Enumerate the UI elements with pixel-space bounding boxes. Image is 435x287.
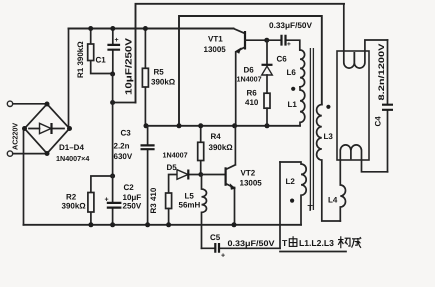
diode D6 — [237, 40, 273, 93]
node VT2 emitter bottom — [232, 222, 237, 227]
wire bridge left vertex to bottom rail — [23, 129, 25, 225]
node R3 bottom — [166, 222, 171, 227]
svg-text:L1: L1 — [288, 100, 298, 109]
wire base node to VT2 — [201, 174, 226, 176]
node bridge right — [67, 126, 72, 131]
node bridge bottom — [45, 151, 50, 156]
inductor L3 — [317, 105, 341, 222]
transistor VT1 — [204, 29, 267, 126]
phase dot L6/L1 — [291, 87, 295, 91]
resistor R2 — [62, 176, 113, 225]
wire top border (C1/C2 midpoint to lamp) — [136, 4, 345, 103]
inductor L2 — [280, 162, 306, 225]
phase dot L2 — [290, 199, 294, 203]
svg-text:R5: R5 — [154, 68, 165, 77]
svg-text:AC220V: AC220V — [11, 123, 20, 150]
svg-text:0.33μF/50V: 0.33μF/50V — [269, 21, 313, 30]
wire bottom rail — [24, 224, 302, 226]
hanzi gou — [338, 236, 350, 248]
svg-text:390kΩ: 390kΩ — [62, 202, 87, 211]
svg-text:L2: L2 — [286, 177, 296, 186]
svg-text:R3 410: R3 410 — [149, 187, 158, 213]
node C1 bottom / R1 join — [110, 72, 115, 77]
node C3 bottom — [145, 222, 150, 227]
capacitor C4 — [374, 40, 394, 172]
svg-text:C2: C2 — [124, 183, 135, 192]
node VT1 base — [264, 38, 269, 43]
wire bridge right vertex to DC+ rail — [68, 29, 70, 129]
fluorescent lamp tube — [337, 4, 388, 172]
svg-text:2.2n: 2.2n — [114, 142, 130, 151]
phase dot L3 — [326, 105, 330, 109]
resistor R5 — [142, 29, 175, 126]
transformer core — [310, 48, 313, 210]
svg-text:VT1: VT1 — [208, 35, 223, 44]
node D6R6 mid rail — [265, 123, 270, 128]
svg-text:1N4007: 1N4007 — [163, 151, 188, 160]
node C2 bottom — [110, 222, 115, 227]
resistor R3 — [149, 187, 172, 225]
svg-text:T: T — [308, 203, 314, 213]
svg-text:R1 390kΩ: R1 390kΩ — [76, 41, 85, 78]
inductor L5 — [179, 175, 207, 249]
svg-text:T: T — [282, 238, 288, 248]
node VT1 emitter / mid rail / VT2 collector — [232, 123, 237, 128]
svg-text:+: + — [221, 253, 225, 260]
hanzi you — [289, 236, 297, 246]
svg-text:L3: L3 — [324, 132, 334, 141]
svg-text:56mH: 56mH — [179, 201, 201, 210]
diode inside bridge — [29, 123, 64, 134]
node R2 top join — [110, 174, 115, 179]
wire sub-top rail to L3 — [179, 16, 322, 126]
svg-text:+: + — [115, 37, 119, 44]
transistor VT2 — [226, 126, 263, 225]
node R1 top — [88, 26, 93, 31]
resistor R1 — [76, 29, 113, 79]
svg-text:C3: C3 — [121, 129, 132, 138]
inductor L6 — [300, 50, 305, 87]
svg-text:250V: 250V — [123, 202, 142, 211]
capacitor C3 — [114, 126, 155, 225]
svg-text:C5: C5 — [210, 233, 221, 242]
capacitor C1 — [96, 29, 134, 96]
node bridge top — [45, 102, 50, 107]
node C1 top — [110, 26, 115, 31]
svg-text:410: 410 — [245, 98, 259, 107]
svg-text:R4: R4 — [211, 132, 222, 141]
svg-text:630V: 630V — [114, 152, 133, 161]
node R5 top — [143, 26, 148, 31]
svg-text:+: + — [287, 41, 291, 48]
svg-text:C1: C1 — [96, 56, 107, 65]
resistor R6 — [245, 89, 270, 126]
wire C1C2 column — [112, 74, 114, 176]
svg-text:R6: R6 — [247, 89, 258, 98]
svg-text:C6: C6 — [277, 55, 288, 64]
diode D5 — [163, 151, 201, 194]
svg-text:13005: 13005 — [204, 45, 227, 54]
svg-text:D1–D4: D1–D4 — [59, 143, 84, 152]
wire DC+ top rail — [69, 28, 234, 30]
svg-text:390kΩ: 390kΩ — [151, 78, 176, 87]
svg-text:13005: 13005 — [240, 179, 263, 188]
inductor L4 — [328, 160, 345, 221]
wire riser to midpoint node — [113, 102, 136, 104]
svg-text:0.33μF/50V: 0.33μF/50V — [228, 239, 276, 248]
svg-text:C4: C4 — [374, 116, 383, 127]
lamp bottom filament — [340, 145, 387, 172]
node bridge left — [22, 126, 27, 131]
svg-text:L4: L4 — [328, 196, 338, 205]
node base VT2 / D5 cathode — [198, 172, 203, 177]
terminal AC input lower — [7, 151, 12, 156]
hanzi cheng — [352, 237, 362, 248]
inductor L1 — [300, 87, 305, 126]
wire AC lower to bridge bottom — [13, 153, 47, 155]
svg-text:10μF/250V: 10μF/250V — [124, 38, 134, 95]
lamp top filament — [344, 4, 388, 68]
wire AC upper to bridge top — [13, 103, 47, 105]
svg-text:D5: D5 — [167, 163, 178, 172]
svg-text:D6: D6 — [244, 66, 255, 75]
svg-text:VT2: VT2 — [241, 169, 256, 178]
node R4 top — [198, 123, 203, 128]
svg-text:8.2n/1200V: 8.2n/1200V — [377, 43, 386, 101]
capacitor C2 — [105, 176, 142, 225]
wire annotation underline — [280, 251, 346, 253]
node midpoint join — [110, 100, 115, 105]
svg-text:L5: L5 — [185, 192, 195, 201]
node R5 bottom / C3 top / rail start — [144, 123, 149, 128]
capacitor C5 — [202, 233, 281, 260]
svg-text:10μF: 10μF — [123, 193, 142, 202]
node R2 bottom — [88, 222, 93, 227]
svg-text:390kΩ: 390kΩ — [209, 143, 234, 152]
capacitor C6 0.33uF/50V — [267, 21, 313, 64]
node riser mid rail — [177, 123, 182, 128]
annotation T composed of L1 L2 L3 — [282, 236, 361, 248]
svg-text:+: + — [105, 197, 109, 204]
terminal AC input upper — [7, 101, 12, 106]
wire middle rail — [145, 125, 300, 127]
wire C5 to L2 top riser — [279, 162, 281, 248]
bridge rectifier D1-D4 diamond — [25, 104, 70, 154]
svg-text:1N4007×4: 1N4007×4 — [56, 154, 89, 163]
svg-text:L1.L2.L3: L1.L2.L3 — [299, 238, 334, 248]
svg-text:L6: L6 — [287, 68, 297, 77]
svg-text:1N4007: 1N4007 — [237, 75, 262, 84]
svg-text:R2: R2 — [66, 193, 77, 202]
resistor R4 — [198, 126, 234, 175]
